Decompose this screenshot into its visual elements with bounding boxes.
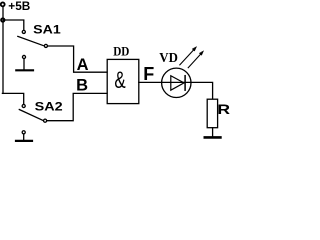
wire node A from SA1 to gate	[48, 46, 107, 72]
wire resistor to ground	[212, 128, 214, 137]
svg-text:DD: DD	[113, 44, 129, 58]
wire branch to SA1	[3, 20, 24, 30]
svg-text:R: R	[217, 101, 230, 117]
contact post ground under SA2	[16, 131, 32, 141]
svg-text:&: &	[114, 67, 125, 94]
switch SA2	[19, 104, 46, 122]
wire branch to SA2	[2, 93, 23, 104]
LED light arrow 1	[180, 47, 197, 65]
svg-text:B: B	[76, 77, 88, 95]
contact post ground under SA1	[16, 55, 33, 70]
svg-text:SA1: SA1	[33, 23, 61, 37]
wire node B from SA2 to gate	[47, 93, 107, 120]
resistor R	[207, 99, 217, 128]
node junction on rail	[1, 18, 4, 21]
wire left rail vertical	[2, 6, 4, 93]
wire node F from gate through LED to resistor	[139, 82, 213, 99]
LED light arrow 2	[188, 51, 203, 68]
svg-text:A: A	[77, 56, 89, 74]
terminal +5V	[1, 2, 5, 6]
svg-text:+5В: +5В	[8, 0, 30, 13]
svg-text:VD: VD	[159, 50, 178, 65]
ground bar under resistor	[205, 136, 221, 139]
svg-text:F: F	[143, 64, 154, 84]
svg-text:SA2: SA2	[35, 100, 63, 114]
switch SA1	[18, 30, 48, 47]
AND gate U=DD box	[107, 59, 139, 103]
LED VD	[162, 68, 191, 97]
